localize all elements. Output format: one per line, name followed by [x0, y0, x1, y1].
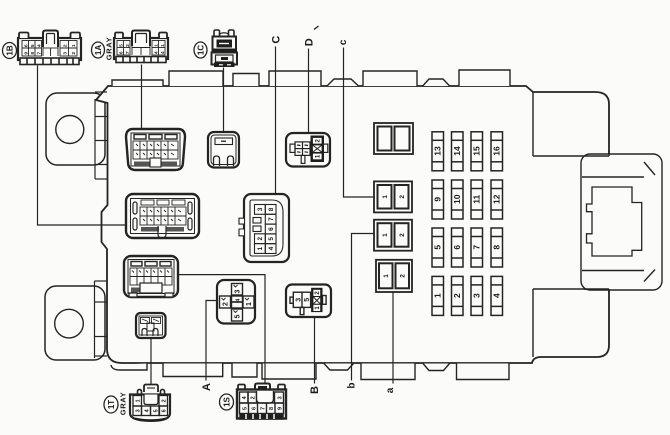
svg-text:2: 2: [62, 44, 68, 47]
svg-text:1: 1: [257, 246, 264, 250]
svg-text:8: 8: [269, 407, 275, 410]
svg-text:2: 2: [223, 302, 230, 306]
bracket lower-left mounting tab: [45, 286, 105, 360]
bracket upper-left mounting tab: [46, 93, 105, 165]
svg-text:3: 3: [235, 289, 242, 293]
connector 1S: [237, 384, 286, 420]
svg-text:1: 1: [71, 44, 77, 47]
svg-text:1S: 1S: [222, 396, 231, 406]
bottom edge tab 2: [163, 364, 223, 377]
svg-text:9: 9: [433, 197, 443, 202]
svg-text:5: 5: [119, 44, 125, 47]
relay socket pair b: [374, 220, 412, 251]
svg-text:2: 2: [399, 233, 406, 237]
svg-text:2: 2: [125, 44, 131, 47]
relay D: [286, 133, 330, 167]
top edge tab 2: [169, 71, 223, 86]
wire leader 1T to socket: [150, 338, 152, 384]
wire leader 1C to relay socket: [223, 68, 225, 133]
label oval 1A: [92, 42, 105, 58]
relay socket 1C position: [208, 132, 239, 168]
svg-text:5: 5: [30, 44, 36, 47]
fuse 9: [432, 180, 444, 219]
svg-text:14: 14: [452, 146, 462, 156]
fuse 7: [471, 228, 483, 267]
wire leader b to relay pair: [352, 234, 375, 381]
svg-text:7: 7: [268, 217, 275, 221]
svg-text:4: 4: [160, 51, 166, 54]
svg-text:B: B: [309, 386, 321, 394]
bottom edge tab 5: [361, 364, 415, 380]
bottom edge tab 6: [457, 364, 510, 380]
svg-text:8: 8: [492, 245, 502, 250]
main fuse box body outline: [96, 86, 609, 363]
fuse 15: [471, 132, 483, 171]
top edge tab 1: [112, 80, 163, 86]
connector socket C: [239, 194, 289, 262]
svg-text:6: 6: [24, 44, 30, 47]
label oval 1T: [104, 396, 118, 413]
connector socket 1B position: [126, 194, 199, 238]
svg-text:C: C: [271, 36, 283, 44]
label oval 1B: [3, 43, 17, 59]
svg-text:1A: 1A: [94, 45, 103, 55]
top edge tab 5: [363, 71, 417, 86]
top edge tab 4: [269, 71, 321, 86]
right housing keyway cross: [587, 187, 642, 256]
connector 1B: [18, 31, 81, 65]
wire leader A to relay A: [206, 301, 217, 381]
svg-text:1C: 1C: [196, 45, 205, 55]
svg-text:3: 3: [257, 207, 264, 211]
fuse 4: [491, 276, 503, 315]
svg-text:3: 3: [277, 396, 283, 399]
wire leader B to relay B: [314, 317, 316, 384]
connector 1T: [130, 385, 170, 422]
svg-text:D: D: [303, 38, 315, 46]
top edge trapezoid bump 2: [423, 79, 450, 86]
relay socket pair (unnumbered): [374, 123, 413, 154]
fuse 5: [432, 228, 444, 267]
svg-text:1: 1: [382, 233, 389, 237]
fuse 3: [471, 276, 483, 315]
wire leader 1S to socket: [178, 275, 265, 384]
wire leader C to connector C: [275, 47, 277, 195]
fuse 14: [452, 132, 464, 171]
fuse 10: [452, 180, 464, 219]
fuse grid: [432, 132, 503, 316]
label oval 1C: [194, 42, 207, 58]
wire leader D to relay D: [308, 49, 310, 134]
wire leader c to relay pair: [344, 48, 375, 198]
fuse 12: [491, 180, 503, 219]
svg-text:16: 16: [492, 146, 502, 156]
svg-text:3: 3: [295, 298, 302, 302]
svg-text:2: 2: [250, 396, 256, 399]
svg-text:2: 2: [257, 237, 264, 241]
svg-text:9: 9: [277, 407, 283, 410]
svg-text:3: 3: [62, 52, 68, 55]
svg-text:6: 6: [268, 227, 275, 231]
svg-text:1: 1: [154, 44, 160, 47]
upper right protruding block edges: [533, 92, 609, 156]
fuse 8: [491, 228, 503, 267]
wire leader 1B to socket: [38, 66, 127, 226]
connector 1A: [114, 31, 168, 63]
svg-text:1: 1: [383, 274, 390, 278]
svg-text:7: 7: [125, 51, 131, 54]
svg-text:GRAY: GRAY: [119, 392, 128, 415]
svg-text:2: 2: [161, 399, 167, 402]
svg-text:1: 1: [246, 302, 253, 306]
svg-text:13: 13: [433, 146, 443, 156]
svg-text:6: 6: [119, 51, 125, 54]
bracket upper-left bolt hole: [56, 116, 84, 144]
lower right protruding block edges: [533, 289, 609, 357]
svg-text:3: 3: [135, 409, 141, 412]
bottom edge tab 3: [232, 364, 257, 378]
svg-text:1B: 1B: [5, 45, 14, 55]
bracket lower-left bolt hole: [55, 309, 84, 338]
right connector housing: [581, 154, 662, 290]
fuse 1: [432, 276, 444, 315]
svg-text:6: 6: [452, 245, 462, 250]
svg-text:6: 6: [251, 407, 257, 410]
svg-text:10: 10: [452, 194, 462, 204]
connector socket 1A position: [126, 129, 185, 170]
svg-text:8: 8: [268, 207, 275, 211]
fuse 13: [432, 132, 444, 171]
svg-text:3: 3: [472, 293, 482, 298]
svg-text:15: 15: [472, 146, 482, 156]
connector socket 1T position: [136, 313, 166, 338]
svg-text:1: 1: [433, 293, 443, 298]
svg-text:2: 2: [400, 274, 407, 278]
bottom edge trapezoid bump 1: [324, 364, 354, 371]
svg-text:12: 12: [492, 194, 502, 204]
svg-text:c: c: [338, 39, 349, 45]
top edge tab 6: [459, 70, 510, 86]
svg-text:1T: 1T: [107, 400, 116, 409]
svg-text:5: 5: [153, 409, 159, 412]
svg-text:GRAY: GRAY: [105, 37, 114, 60]
connector 1C: [212, 30, 238, 67]
svg-text:6: 6: [161, 409, 167, 412]
svg-text:1: 1: [160, 44, 166, 47]
svg-text:4: 4: [154, 51, 160, 54]
relay socket pair a: [376, 260, 412, 292]
svg-text:2: 2: [71, 52, 77, 55]
top edge trapezoid bump 1: [327, 79, 359, 86]
svg-text:2: 2: [399, 195, 406, 199]
left edge flange lines: [95, 92, 108, 358]
svg-text:8: 8: [30, 52, 36, 55]
svg-text:7: 7: [472, 245, 482, 250]
svg-text:1: 1: [382, 195, 389, 199]
svg-text:2: 2: [452, 293, 462, 298]
fuse 11: [471, 180, 483, 219]
fuse 6: [452, 228, 464, 267]
svg-text:4: 4: [268, 246, 275, 250]
stray tick mark: [314, 26, 319, 30]
relay A: [217, 280, 255, 324]
label oval 1S: [220, 394, 234, 410]
bottom edge trapezoid bump 2: [423, 364, 450, 371]
svg-text:5: 5: [235, 314, 242, 318]
bottom edge tab 4: [262, 364, 316, 380]
bottom edge shallow tab 1: [111, 364, 147, 371]
svg-text:5: 5: [304, 298, 311, 302]
wire leader 1A to socket: [141, 65, 143, 130]
relay B: [286, 285, 331, 318]
connector socket 1S position: [124, 256, 178, 297]
svg-text:5: 5: [242, 407, 248, 410]
top edge tab 3: [233, 74, 259, 87]
fuse 16: [491, 132, 503, 171]
svg-text:b: b: [346, 382, 357, 388]
wire leader a to relay pair: [392, 292, 394, 383]
svg-text:5: 5: [268, 237, 275, 241]
svg-text:9: 9: [24, 52, 30, 55]
svg-text:7: 7: [37, 52, 43, 55]
relay socket pair c: [374, 181, 412, 212]
svg-text:a: a: [385, 387, 396, 393]
svg-text:4: 4: [492, 293, 502, 298]
svg-text:1: 1: [135, 399, 141, 402]
svg-text:A: A: [201, 383, 213, 391]
svg-text:7: 7: [260, 407, 266, 410]
svg-text:4: 4: [37, 44, 43, 47]
svg-text:5: 5: [433, 245, 443, 250]
fuse 2: [452, 276, 464, 315]
svg-text:11: 11: [472, 194, 482, 203]
